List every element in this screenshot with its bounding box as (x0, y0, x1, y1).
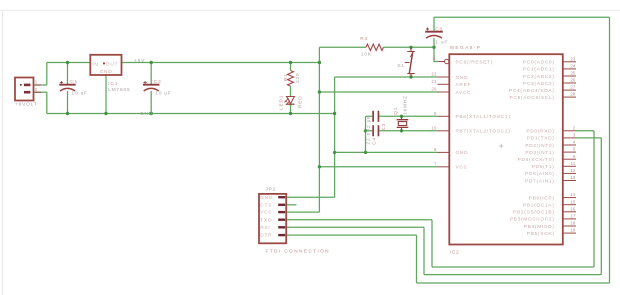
wire R3 to S1 top (383, 46, 411, 48)
wire DTR top run (434, 16, 610, 18)
IC2 right pin numbers (570, 56, 576, 232)
svg-text:PD3(INT1): PD3(INT1) (525, 150, 554, 156)
svg-text:PC4(ADC4/SDA): PC4(ADC4/SDA) (509, 88, 555, 94)
svg-text:19: 19 (570, 228, 576, 233)
svg-text:16: 16 (570, 206, 576, 211)
wire DTR left vertical (416, 235, 418, 283)
wire C1 bottom branch (67, 91, 69, 114)
junction crystal bottom (400, 129, 403, 132)
wire C2 bottom branch (150, 91, 152, 114)
wire RXI bottom run (424, 274, 601, 276)
svg-text:AVCC: AVCC (456, 90, 472, 96)
frame left edge (2, 10, 4, 295)
wire C5 top up (433, 17, 435, 31)
svg-text:PB2(SS/OC1B): PB2(SS/OC1B) (513, 210, 554, 216)
svg-text:PB1(OC1A): PB1(OC1A) (523, 203, 555, 209)
svg-text:1 uF: 1 uF (435, 39, 448, 45)
svg-text:3: 3 (573, 133, 576, 138)
wire JP2 VCC to +5V bus (286, 211, 319, 213)
LED LED1 (278, 95, 303, 110)
frame top edge (0, 9, 620, 11)
junction S1 bottom (409, 75, 412, 78)
svg-text:7: 7 (434, 161, 437, 166)
wire LED1 cathode to ground rail (290, 104, 292, 113)
junction LED bottom (289, 112, 292, 115)
svg-text:22 pF: 22 pF (365, 128, 371, 144)
svg-text:10 uF: 10 uF (155, 91, 171, 97)
svg-text:PD6(AIN0): PD6(AIN0) (525, 171, 555, 177)
svg-text:GND: GND (100, 69, 113, 75)
svg-text:14: 14 (570, 192, 576, 197)
wire crystal ground vertical (365, 116, 367, 152)
svg-text:VCC: VCC (260, 210, 272, 216)
IC2 left pin stubs (438, 62, 450, 167)
wire PD1 pin3 (576, 137, 601, 139)
svg-text:5: 5 (573, 147, 576, 152)
wire GND bottom rail (47, 113, 335, 115)
svg-text:9: 9 (434, 111, 437, 116)
switch S1 (397, 47, 414, 77)
svg-text:C3: C3 (381, 123, 387, 131)
svg-text:FTDI CONNECTION: FTDI CONNECTION (266, 249, 331, 255)
wire regulator GND pin down (105, 75, 107, 114)
svg-text:DTR: DTR (260, 233, 272, 239)
pin 1 inversion circle (445, 59, 449, 63)
wire R1 to LED1 (290, 86, 292, 96)
IC2 right pin names (509, 60, 555, 237)
svg-text:+5V: +5V (134, 58, 145, 64)
svg-text:IC2: IC2 (450, 249, 460, 255)
wire +5V vertical bus (318, 47, 320, 212)
wire DTR bottom run (417, 282, 610, 284)
wire +9V vertical up (46, 63, 48, 86)
wire JP2 TXO run (286, 219, 432, 221)
junction AVCC tap (318, 90, 321, 93)
svg-text:MEGA8-P: MEGA8-P (450, 45, 481, 51)
svg-text:VCC: VCC (456, 165, 468, 171)
svg-text:PD4(XCK/T0): PD4(XCK/T0) (518, 157, 555, 163)
svg-text:PD7(AIN1): PD7(AIN1) (525, 178, 555, 184)
svg-text:IC1: IC1 (108, 81, 118, 87)
svg-text:PC3(ADC3): PC3(ADC3) (523, 81, 555, 87)
junction C1 top (66, 61, 69, 64)
capacitor C3 (366, 111, 387, 132)
svg-text:4: 4 (573, 140, 576, 145)
svg-text:PD0(RXD): PD0(RXD) (526, 129, 554, 135)
svg-text:OUT: OUT (106, 61, 118, 67)
capacitor C5 (425, 27, 448, 46)
svg-text:PC1(ADC1): PC1(ADC1) (523, 67, 555, 73)
junction crystal gnd pin8 (364, 151, 367, 154)
wire XTAL1 to pin9 (379, 115, 437, 117)
svg-text:PB5(SCK): PB5(SCK) (527, 231, 555, 237)
svg-text:R3: R3 (360, 36, 368, 42)
junction C2 bottom (150, 112, 153, 115)
wire TXO left vertical (431, 220, 433, 267)
svg-text:12: 12 (570, 168, 576, 173)
svg-text:C2: C2 (154, 79, 162, 85)
JP2 pin bars (278, 196, 285, 236)
wire +9V top rail to regulator IN (47, 62, 91, 64)
svg-text:17: 17 (570, 214, 576, 219)
svg-text:C1: C1 (70, 79, 78, 85)
svg-text:26: 26 (570, 78, 576, 83)
svg-text:S1: S1 (397, 63, 404, 69)
wire JP2 RXI run (286, 226, 424, 228)
wire reset junction down to pin1 (434, 47, 438, 61)
svg-text:PC5(ADC5/SCL): PC5(ADC5/SCL) (510, 95, 555, 101)
junction R1 top (289, 61, 292, 64)
svg-text:PB4(MISO): PB4(MISO) (524, 224, 555, 230)
svg-text:PB0(ICP): PB0(ICP) (529, 195, 555, 201)
wire DTR to JP2 (286, 234, 416, 236)
svg-text:GND: GND (456, 75, 469, 81)
svg-text:15: 15 (570, 199, 576, 204)
IC2 right pin stubs (563, 62, 576, 233)
capacitor C1 (59, 79, 87, 97)
wire X1 pin2 to corner (35, 91, 47, 93)
wire VCC pin7 from +5V bus (319, 166, 437, 168)
svg-text:220: 220 (295, 73, 301, 83)
svg-text:10: 10 (431, 125, 437, 130)
svg-text:C5: C5 (435, 27, 443, 33)
svg-text:10K: 10K (361, 52, 372, 58)
wire S1 top to C5 junction (411, 46, 434, 48)
svg-text:PD5(T1): PD5(T1) (532, 164, 555, 170)
svg-text:27: 27 (570, 85, 576, 90)
svg-text:1: 1 (433, 56, 436, 61)
junction +5V rail end (318, 61, 321, 64)
svg-text:PB6(XTAL1/TOSC1): PB6(XTAL1/TOSC1) (456, 114, 511, 120)
svg-text:TXO: TXO (260, 217, 272, 223)
svg-text:24: 24 (570, 64, 576, 69)
wire C4 left stub (366, 130, 373, 132)
wire C3 left stub (366, 115, 373, 117)
svg-text:8: 8 (434, 147, 437, 152)
junction C5 bottom (432, 46, 435, 49)
junction VCC tap (318, 165, 321, 168)
svg-text:28: 28 (570, 92, 576, 97)
wire R1 top branch (290, 63, 292, 71)
junction C4 ground (364, 129, 367, 132)
junction GND rail end (333, 112, 336, 115)
wire reset net to R3 (319, 46, 366, 48)
svg-text:C4: C4 (372, 137, 378, 145)
wire PD0 pin2 (576, 130, 594, 132)
svg-text:PD1(TXD): PD1(TXD) (527, 136, 555, 142)
svg-text:GND: GND (456, 150, 469, 156)
wire +5V rail from regulator OUT (122, 62, 320, 64)
wire AVCC from +5V bus (319, 91, 437, 93)
svg-text:25: 25 (570, 71, 576, 76)
svg-text:RXI: RXI (260, 225, 270, 231)
svg-text:PB7(XTAL2/TOSC2): PB7(XTAL2/TOSC2) (456, 129, 511, 135)
regulator IC1 LM7805 (90, 55, 130, 93)
connector X1 (15, 78, 41, 108)
IC2 left pin numbers (431, 56, 437, 166)
svg-text:GND: GND (260, 195, 273, 201)
svg-text:Q1: Q1 (393, 107, 399, 115)
wire JP2 CTS stub (286, 204, 296, 206)
svg-text:13: 13 (570, 175, 576, 180)
wire GND vertical bus (334, 77, 336, 197)
junction C1 bottom (66, 112, 69, 115)
svg-text:PC6(/RESET): PC6(/RESET) (456, 59, 494, 65)
wire pin8 GND (335, 151, 438, 153)
wire X1 pin1 to corner (35, 84, 47, 86)
svg-text:21: 21 (431, 79, 437, 84)
IC2 left pin names (456, 59, 511, 170)
wire TXO right vertical to PD0 (593, 131, 595, 267)
svg-text:RED: RED (297, 95, 303, 108)
svg-text:22: 22 (431, 72, 437, 77)
resistor R3 (360, 36, 383, 58)
crystal Q1 (393, 95, 409, 131)
wire C1 top branch (67, 63, 69, 85)
svg-text:2: 2 (35, 87, 38, 92)
svg-text:JP2: JP2 (266, 186, 277, 192)
svg-text:IN: IN (92, 61, 98, 67)
svg-text:LED1: LED1 (278, 95, 284, 110)
svg-text:R1: R1 (283, 73, 289, 81)
connector JP2 body (259, 186, 330, 254)
junction C2 top (150, 61, 153, 64)
svg-text:10 uF: 10 uF (72, 91, 88, 97)
capacitor C2 (143, 79, 172, 97)
wire C2 top branch (150, 63, 152, 85)
svg-text:1: 1 (35, 80, 38, 85)
svg-text:AREF: AREF (456, 82, 472, 88)
wire GND vertical from X1 pin2 (46, 92, 48, 113)
svg-text:PD2(INT0): PD2(INT0) (525, 143, 554, 149)
JP2 pin names (260, 195, 273, 239)
wire RXI left vertical (423, 227, 425, 274)
junction regulator GND (104, 112, 107, 115)
svg-text:+9VOLT: +9VOLT (15, 102, 37, 108)
wire C5 bottom to reset junction (433, 38, 435, 47)
wire GND upper run to pin22 (335, 76, 438, 78)
junction crystal top (400, 115, 403, 118)
wire XTAL2 to pin10 (379, 130, 437, 132)
svg-text:CTS: CTS (260, 202, 272, 208)
svg-text:18: 18 (570, 221, 576, 226)
svg-text:GND: GND (140, 111, 153, 117)
wire RXI right vertical to PD1 (600, 138, 602, 275)
wire TXO bottom run (432, 266, 594, 268)
svg-text:16MHZ: 16MHZ (403, 95, 409, 115)
svg-text:11: 11 (571, 161, 576, 166)
IC U2 MEGA8-P body (449, 45, 563, 255)
junction GND bus pin8 (333, 151, 336, 154)
svg-text:20: 20 (431, 87, 437, 92)
svg-text:2: 2 (573, 125, 576, 130)
wire DTR right vertical (609, 17, 611, 283)
svg-text:6: 6 (573, 154, 576, 159)
svg-text:PB3(MOSI/OC2): PB3(MOSI/OC2) (510, 217, 555, 223)
svg-text:LM7805: LM7805 (108, 87, 130, 93)
svg-text:PC0(ADC0): PC0(ADC0) (523, 60, 555, 66)
resistor R1 (283, 71, 301, 87)
svg-text:PC2(ADC2): PC2(ADC2) (523, 74, 555, 80)
svg-text:23: 23 (570, 56, 576, 61)
capacitor C4 (365, 125, 379, 145)
junction S1 top (409, 46, 412, 49)
wire JP2 GND to GND bus (286, 196, 334, 198)
